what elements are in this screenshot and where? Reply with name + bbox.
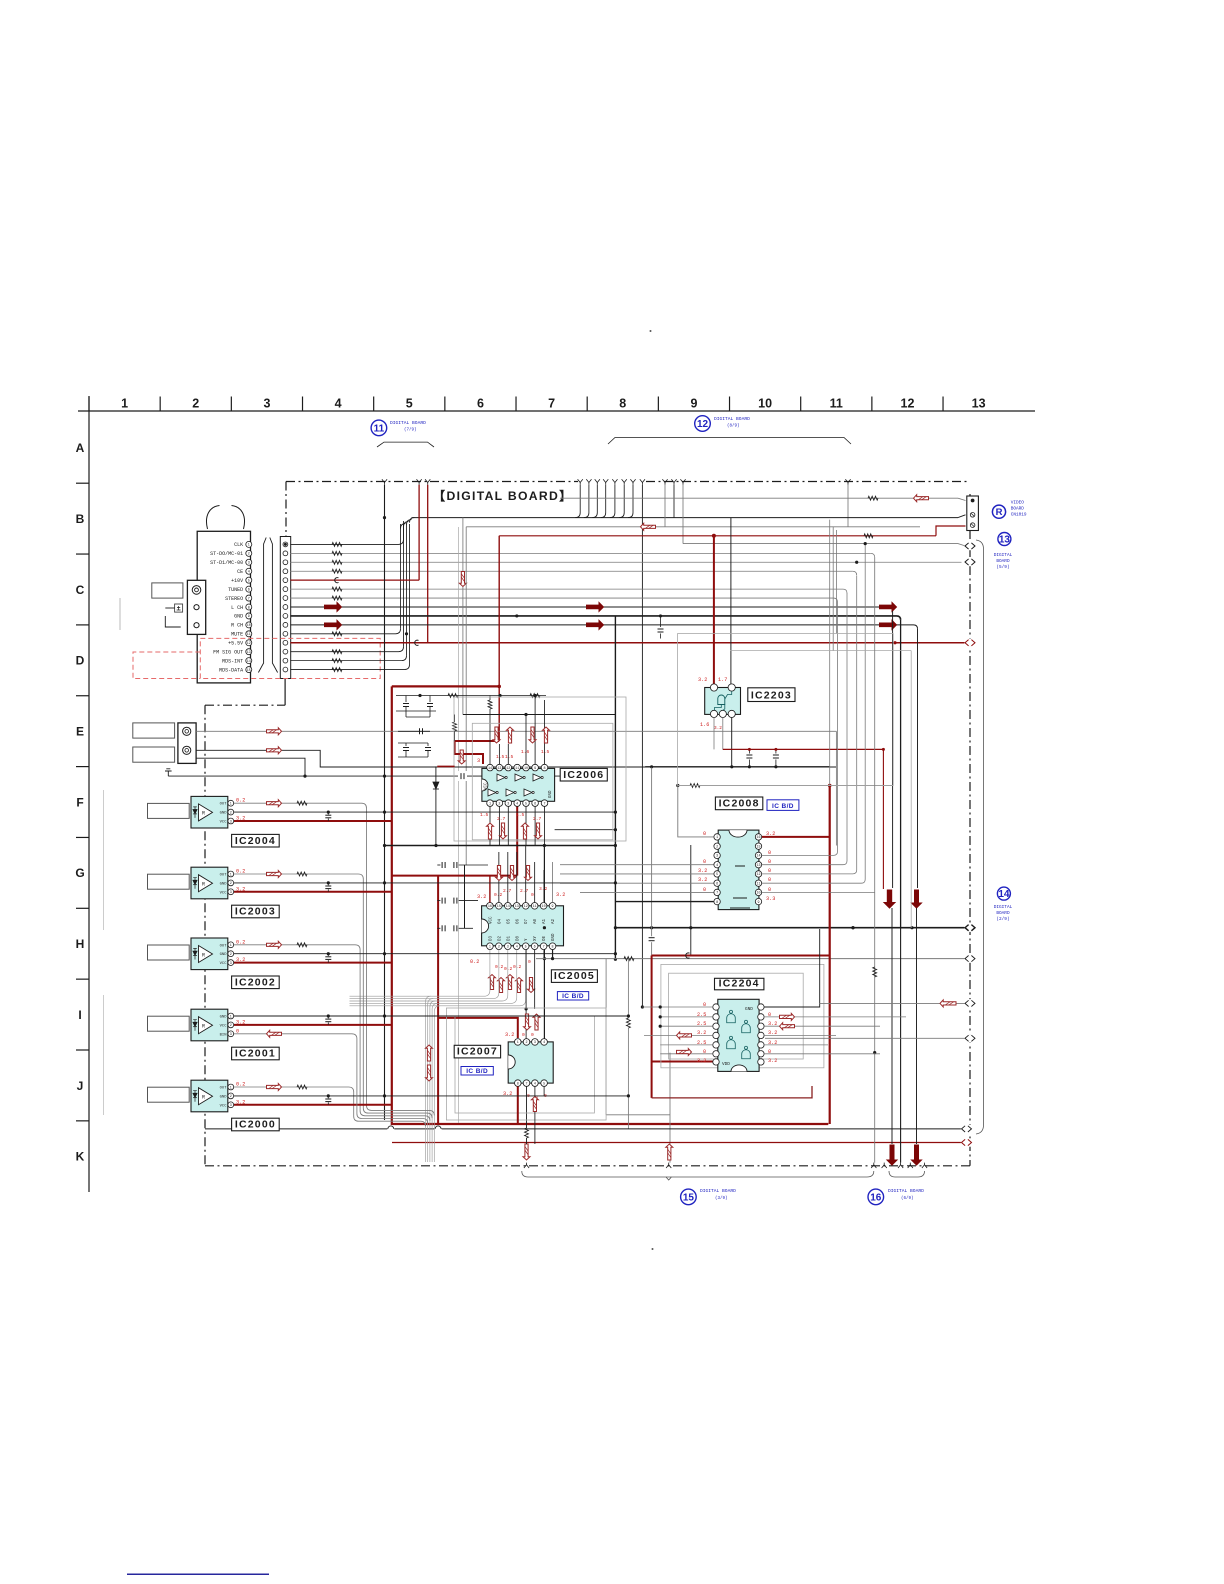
svg-text:1.6: 1.6 <box>521 749 530 755</box>
svg-text:B: B <box>76 512 85 526</box>
gray vertical x463 with arrow <box>462 518 464 715</box>
svg-text:3: 3 <box>263 397 270 411</box>
grid tick col 11 <box>800 397 802 412</box>
gray vertical x874 long <box>874 557 876 1162</box>
grid tick col 12 <box>871 397 873 412</box>
svg-text:3: 3 <box>248 562 250 566</box>
svg-text:3.2: 3.2 <box>236 1019 245 1025</box>
svg-text:3.2: 3.2 <box>236 886 245 892</box>
IC2000 decoupling cap <box>327 1096 329 1098</box>
left faint guide lines <box>103 790 105 930</box>
E-row wire 2 <box>196 750 836 767</box>
page connector right y958 <box>964 954 975 962</box>
svg-text:GND: GND <box>220 953 228 957</box>
svg-text:2: 2 <box>230 953 232 957</box>
optical IC IC2004 label box <box>232 834 280 847</box>
svg-text:OUT: OUT <box>220 944 228 948</box>
grid tick col 7 <box>515 397 517 412</box>
IC2005 fan to left bus <box>350 950 490 997</box>
svg-text:R: R <box>202 882 205 888</box>
svg-text:1: 1 <box>248 544 250 548</box>
svg-text:R: R <box>202 952 205 958</box>
IC2006 pin risers top <box>498 744 500 764</box>
svg-text:GND: GND <box>552 933 556 941</box>
IC2005 IC B/D box <box>557 992 588 1000</box>
bottom edge Y marks <box>524 1165 529 1168</box>
IC2005 arrows above <box>496 866 503 881</box>
red vertical x438 <box>437 876 439 1124</box>
black trunk x615 <box>614 616 616 959</box>
E-row wire 1 arrow <box>267 728 282 735</box>
svg-text:4: 4 <box>534 1082 536 1086</box>
svg-text:MUTE: MUTE <box>231 632 243 638</box>
svg-text:(8/9): (8/9) <box>727 424 740 429</box>
svg-text:0.2: 0.2 <box>236 939 245 945</box>
svg-text:CLK: CLK <box>234 542 243 548</box>
svg-text:FM SIG OUT: FM SIG OUT <box>213 649 243 655</box>
svg-text:0.2: 0.2 <box>470 959 479 965</box>
svg-text:0: 0 <box>528 959 531 965</box>
svg-text:3.2: 3.2 <box>236 1099 245 1105</box>
IC2008 pin10 wire <box>762 891 875 893</box>
IC2004 decoupling cap <box>327 812 329 814</box>
grid tick col 6 <box>444 397 446 412</box>
svg-text:2.7: 2.7 <box>520 888 529 894</box>
optical IC IC2002 body <box>191 938 228 970</box>
svg-text:8: 8 <box>716 901 718 905</box>
svg-text:3: 3 <box>230 1033 232 1037</box>
svg-text:3.2: 3.2 <box>236 816 245 822</box>
svg-text:0: 0 <box>531 1032 534 1038</box>
svg-text:1.5: 1.5 <box>496 754 505 760</box>
svg-text:DIGITAL BOARD: DIGITAL BOARD <box>714 416 750 422</box>
svg-text:5: 5 <box>543 1082 545 1086</box>
trunk red VCC x392 <box>392 686 829 1124</box>
wire stub 683 vertical <box>682 485 684 544</box>
dark red long wire y1142 <box>392 1142 961 1144</box>
svg-text:VIDEO: VIDEO <box>1011 501 1025 506</box>
svg-text:1: 1 <box>716 836 718 840</box>
svg-text:3: 3 <box>477 758 480 764</box>
optical IC IC2001 body <box>191 1009 228 1041</box>
svg-text:DIGITAL BOARD: DIGITAL BOARD <box>700 1188 736 1194</box>
page connector right y1142 <box>961 1138 972 1146</box>
svg-text:11: 11 <box>756 883 760 887</box>
svg-text:3: 3 <box>507 946 509 950</box>
svg-text:14: 14 <box>247 660 251 664</box>
grid tick col 8 <box>586 397 588 412</box>
svg-text:2: 2 <box>230 811 232 815</box>
resistor on x526 <box>525 1128 529 1138</box>
grid ruler left line <box>88 396 90 1192</box>
gray bus y958 IC2005 gnd <box>536 958 966 960</box>
E-row white rect 2 <box>133 747 175 762</box>
IC2204 right wires <box>764 929 820 1007</box>
svg-text:16: 16 <box>488 905 492 909</box>
IC2007 arrows above <box>524 1014 531 1030</box>
connector CN1000 outer box <box>197 531 250 683</box>
gray vertical x606 <box>605 959 607 1115</box>
bus line from top connector to video connector <box>412 517 959 519</box>
svg-text:1.5: 1.5 <box>541 749 550 755</box>
svg-text:3.2: 3.2 <box>505 1032 514 1038</box>
E bundle riser x836 <box>835 731 837 845</box>
verticals feeding down arrows <box>892 611 894 888</box>
IC2203 black riser pin9 <box>730 518 732 685</box>
board edge pin 13 <box>283 649 288 654</box>
IC2007 pin8 red drop <box>517 1086 519 1124</box>
shield box around IC2203/IC2008 <box>678 634 894 786</box>
svg-text:1: 1 <box>230 803 232 807</box>
wire stub 642 vertical <box>641 485 643 1007</box>
svg-text:4: 4 <box>716 864 718 868</box>
series cap on y776 <box>458 771 467 781</box>
black bus y845 heavy <box>385 845 616 847</box>
svg-text:3: 3 <box>230 962 232 966</box>
wire STEREO row to right bundle <box>290 597 833 599</box>
IC2006 arrows above <box>493 727 500 743</box>
svg-text:O4: O4 <box>498 918 502 924</box>
svg-text:(7/9): (7/9) <box>404 428 417 433</box>
IC2008 IC B/D box <box>767 800 799 811</box>
grid tick row 0 <box>76 482 89 484</box>
svg-text:13: 13 <box>999 535 1011 546</box>
wire gray y543 <box>683 544 966 546</box>
IC2008 right fan wires <box>762 602 838 855</box>
svg-text:10: 10 <box>756 892 760 896</box>
IC2005 pin8 gnd drop <box>552 950 554 959</box>
black return bus y1128 <box>205 1128 962 1130</box>
audio jack L pin <box>194 605 199 610</box>
IC2007 pin5 drop <box>543 1086 545 1096</box>
board edge pin 5 <box>283 578 288 583</box>
svg-text:7: 7 <box>248 597 250 601</box>
svg-text:12: 12 <box>247 642 251 646</box>
board edge pin 7 <box>283 596 288 601</box>
svg-text:1: 1 <box>517 1041 519 1045</box>
IC2203 label box <box>748 688 795 702</box>
audio jack white rect <box>152 583 183 598</box>
E-row pin 1 <box>183 727 191 735</box>
IC2007 label box <box>454 1045 500 1058</box>
IC2000 GND wire <box>234 1095 628 1097</box>
svg-text:G: G <box>75 866 84 880</box>
optical IC IC2001 internals <box>199 1017 213 1034</box>
optical IC IC2004 white rect <box>148 803 190 818</box>
svg-text:R: R <box>202 1095 205 1101</box>
IC2008 pin16 red wire <box>762 836 830 838</box>
svg-text:CN1019: CN1019 <box>1011 513 1027 518</box>
svg-text:8: 8 <box>248 606 250 610</box>
svg-text:1.6: 1.6 <box>700 722 709 728</box>
board edge pin 12 <box>283 640 288 645</box>
sheet ref 14 circle <box>997 887 1010 900</box>
svg-text:2: 2 <box>230 1095 232 1099</box>
svg-text:BOARD: BOARD <box>1011 507 1025 512</box>
svg-text:O5: O5 <box>507 918 511 924</box>
thin dark red shield line IC2204 <box>652 1086 812 1098</box>
audio jack shield pin <box>192 586 201 595</box>
svg-text:IC2006: IC2006 <box>563 769 604 781</box>
optical IC IC2004 internals <box>199 804 213 821</box>
sheet ref 12 bracket <box>608 438 851 445</box>
IC2001 VCC red wire <box>234 1024 392 1026</box>
gray vertical x458 <box>458 527 460 1123</box>
grid tick row 8 <box>76 1049 89 1051</box>
svg-text:(5/9): (5/9) <box>996 565 1009 570</box>
svg-text:11: 11 <box>247 633 251 637</box>
optical IC IC2000 label box <box>232 1118 280 1131</box>
svg-text:VCC: VCC <box>485 782 489 790</box>
signal arrow R CH 3 <box>880 620 897 629</box>
red feed horizontal y686 to trunk <box>392 685 499 687</box>
svg-text:2: 2 <box>192 397 199 411</box>
IC2006 inverter gates top row <box>497 774 505 781</box>
optical IC IC2000 body <box>191 1080 228 1112</box>
svg-text:O6: O6 <box>516 918 520 924</box>
tiny page mark lower <box>652 1248 654 1250</box>
svg-text:VCC: VCC <box>220 1104 228 1108</box>
wire +5.5V red riser <box>427 485 429 643</box>
sheet ref 13 circle <box>998 533 1011 546</box>
IC2004 VCC red wire <box>234 820 392 822</box>
hop symbols on black return bus <box>387 1125 394 1132</box>
bus corner into vertical <box>410 518 415 523</box>
IC2004 GND wire <box>234 811 615 813</box>
svg-text:10: 10 <box>524 767 528 771</box>
svg-text:0: 0 <box>522 1032 525 1038</box>
IC2204 right arrows <box>780 1013 795 1020</box>
board edge pin 6 <box>283 587 288 592</box>
board edge pin 1 <box>283 542 288 547</box>
bottom bracket 15 <box>522 1171 874 1177</box>
wire video pin3 red <box>499 535 936 537</box>
svg-text:9: 9 <box>757 901 759 905</box>
svg-text:0.2: 0.2 <box>236 1082 245 1088</box>
svg-text:1.7: 1.7 <box>718 677 727 683</box>
svg-text:+10V: +10V <box>231 578 243 584</box>
svg-text:VDD: VDD <box>722 1062 730 1067</box>
IC2204 right gray connector wires <box>820 1002 966 1004</box>
IC2204 left arrows <box>677 1032 692 1039</box>
IC2006 pin drops bottom <box>489 806 491 845</box>
svg-text:VCC: VCC <box>489 916 493 924</box>
red feed x499 <box>498 536 500 741</box>
IC2006 label box <box>560 768 607 781</box>
svg-text:CE: CE <box>237 569 243 575</box>
svg-text:R CH: R CH <box>231 623 243 629</box>
IC2008 body <box>718 830 759 910</box>
IC2006 top pins 14-8 <box>487 764 494 771</box>
svg-text:OUT: OUT <box>220 874 228 878</box>
svg-text:BOARD: BOARD <box>996 559 1010 564</box>
audio jack R pin <box>194 623 199 628</box>
svg-text:5: 5 <box>525 802 527 806</box>
op-amp IC2006 body <box>482 768 555 801</box>
sheet ref 16 circle <box>868 1189 884 1205</box>
svg-text:0.2: 0.2 <box>495 964 504 970</box>
svg-text:13: 13 <box>972 397 986 411</box>
svg-text:2: 2 <box>498 802 500 806</box>
svg-text:IC2001: IC2001 <box>235 1048 276 1060</box>
svg-text:O7: O7 <box>525 918 529 924</box>
svg-text:14: 14 <box>506 905 510 909</box>
svg-text:13: 13 <box>497 767 501 771</box>
svg-text:14: 14 <box>488 767 492 771</box>
svg-text:ST-D1/MC-00: ST-D1/MC-00 <box>210 560 243 566</box>
red trunk x829 right <box>829 786 831 1125</box>
resistor vertical x454 <box>453 722 457 731</box>
svg-text:【DIGITAL BOARD】: 【DIGITAL BOARD】 <box>433 488 573 503</box>
grid tick row 2 <box>76 624 89 626</box>
svg-text:2.7: 2.7 <box>533 816 542 822</box>
red horiz y875 <box>392 875 517 877</box>
svg-text:VCC: VCC <box>220 821 228 825</box>
svg-text:5: 5 <box>716 873 718 877</box>
svg-text:XY: XY <box>534 935 538 941</box>
grid tick row 1 <box>76 553 89 555</box>
IC2006 arrows below <box>487 823 494 839</box>
optical IC IC2002 internals <box>199 946 213 963</box>
svg-text:IC2000: IC2000 <box>235 1119 276 1131</box>
board edge pin 8 <box>283 605 288 610</box>
bus riser curves from top edge stubs <box>575 485 580 518</box>
board edge pin 9 <box>283 614 288 619</box>
big down arrow pair bottom <box>887 1145 897 1165</box>
IC2007 bottom pins <box>515 1080 522 1087</box>
ground symbol E row <box>165 769 172 776</box>
svg-text:0.2: 0.2 <box>504 966 513 972</box>
board outline top dash-dot edge <box>286 481 578 483</box>
svg-text:12: 12 <box>756 873 760 877</box>
E-row wire 2 arrow <box>267 747 282 754</box>
wire STD1 row straight to edge <box>290 561 961 563</box>
wire +10V red riser <box>418 485 420 580</box>
svg-text:9: 9 <box>534 767 536 771</box>
svg-text:(6/9): (6/9) <box>901 1196 914 1201</box>
audio jack body <box>187 580 205 634</box>
board outline left upper dash-dot <box>285 482 287 537</box>
svg-text:15: 15 <box>756 846 760 850</box>
svg-text:6: 6 <box>716 883 718 887</box>
svg-text:3.2: 3.2 <box>698 877 707 883</box>
IC2005 pin7 drop <box>543 950 545 959</box>
svg-text:3.2: 3.2 <box>556 892 565 898</box>
svg-text:TUNED: TUNED <box>228 587 243 593</box>
svg-text:1: 1 <box>489 802 491 806</box>
IC2204 body <box>718 999 759 1071</box>
IC2004 OUT wire <box>234 803 434 1115</box>
arrow down x463 <box>459 572 466 587</box>
svg-text:D: D <box>76 654 85 668</box>
audio jack ground box <box>175 604 183 612</box>
IC2003 GND wire <box>234 882 615 884</box>
svg-text:OUT: OUT <box>220 803 228 807</box>
svg-text:GND: GND <box>220 1095 228 1099</box>
svg-text:1.5: 1.5 <box>516 812 525 818</box>
IC2008 label box <box>715 797 762 810</box>
shield box inner IC2007 <box>455 1016 594 1113</box>
wire FM row to bus <box>290 651 398 653</box>
svg-text:4: 4 <box>516 946 518 950</box>
board edge pin 15 <box>283 667 288 672</box>
svg-text:A2: A2 <box>552 918 556 924</box>
E-row connector box <box>178 723 196 764</box>
signal arrow R CH 2 <box>587 620 604 629</box>
optical IC IC2001 label box <box>232 1047 280 1060</box>
svg-text:3.2: 3.2 <box>477 894 486 900</box>
svg-text:GND: GND <box>220 1016 228 1020</box>
svg-text:ST-DO/MC-01: ST-DO/MC-01 <box>210 551 243 557</box>
IC2001 BIN wire <box>234 1034 428 1124</box>
IC2204 shield box outer <box>661 964 824 1067</box>
cap pair 1 <box>405 696 407 703</box>
svg-text:A: A <box>76 441 85 455</box>
svg-text:BOARD: BOARD <box>996 911 1010 916</box>
right side bracket <box>976 540 984 1134</box>
series cap x651 on riser <box>651 767 653 936</box>
svg-text:GND: GND <box>220 882 228 886</box>
IC2000 VCC red wire <box>234 1104 392 1106</box>
svg-text:OUT: OUT <box>220 1087 228 1091</box>
svg-text:K: K <box>76 1150 85 1164</box>
IC2006 inverter gates bottom row <box>488 789 496 796</box>
IC2203 pin2 drop <box>722 718 724 750</box>
svg-text:1.5: 1.5 <box>480 812 489 818</box>
grid tick row 4 <box>76 766 89 768</box>
svg-text:3.2: 3.2 <box>698 868 707 874</box>
wire video pin2 black step <box>958 515 966 518</box>
IC2003 VCC red wire <box>234 891 392 893</box>
svg-text:(3/9): (3/9) <box>715 1196 728 1201</box>
IC2008 left pin wires 4-7 <box>560 864 714 866</box>
grid tick row 6 <box>76 907 89 909</box>
svg-text:10: 10 <box>247 624 251 628</box>
svg-text:IC2002: IC2002 <box>235 976 276 988</box>
decoupling caps under IC2203 <box>748 749 750 753</box>
junction dots right band <box>864 542 867 545</box>
junction dots L/GND rows <box>515 614 518 617</box>
IC2204 label box <box>715 978 764 990</box>
svg-text:3: 3 <box>534 1041 536 1045</box>
signal arrow L CH 2 <box>587 602 604 611</box>
connector exit +5.5V right edge <box>964 639 975 647</box>
svg-text:H: H <box>76 937 85 951</box>
svg-text:1.5: 1.5 <box>505 754 514 760</box>
grid tick row 5 <box>76 836 89 838</box>
optical IC IC2000 internals <box>199 1088 213 1105</box>
wire RDSI row to bus <box>290 660 401 662</box>
wire video pin1 gray <box>560 497 958 499</box>
gray vertical x690 <box>690 845 692 956</box>
gray vertical x829 upper <box>829 520 831 786</box>
board edge connector strip <box>280 537 290 679</box>
svg-text:7: 7 <box>525 1082 527 1086</box>
wire MUTE row to bus <box>290 633 395 635</box>
cap row 2 <box>398 730 430 732</box>
board edge pin 2 <box>283 551 288 556</box>
svg-text:9: 9 <box>248 615 250 619</box>
svg-text:I: I <box>78 1008 81 1022</box>
svg-text:4: 4 <box>516 802 518 806</box>
board edge pin 4 <box>283 569 288 574</box>
svg-text:GND: GND <box>745 1007 753 1012</box>
IC2005 body <box>482 906 564 946</box>
svg-text:1: 1 <box>230 873 232 877</box>
svg-text:12: 12 <box>901 397 915 411</box>
IC2008 feed wire y785 <box>678 785 893 787</box>
svg-text:2: 2 <box>230 1024 232 1028</box>
